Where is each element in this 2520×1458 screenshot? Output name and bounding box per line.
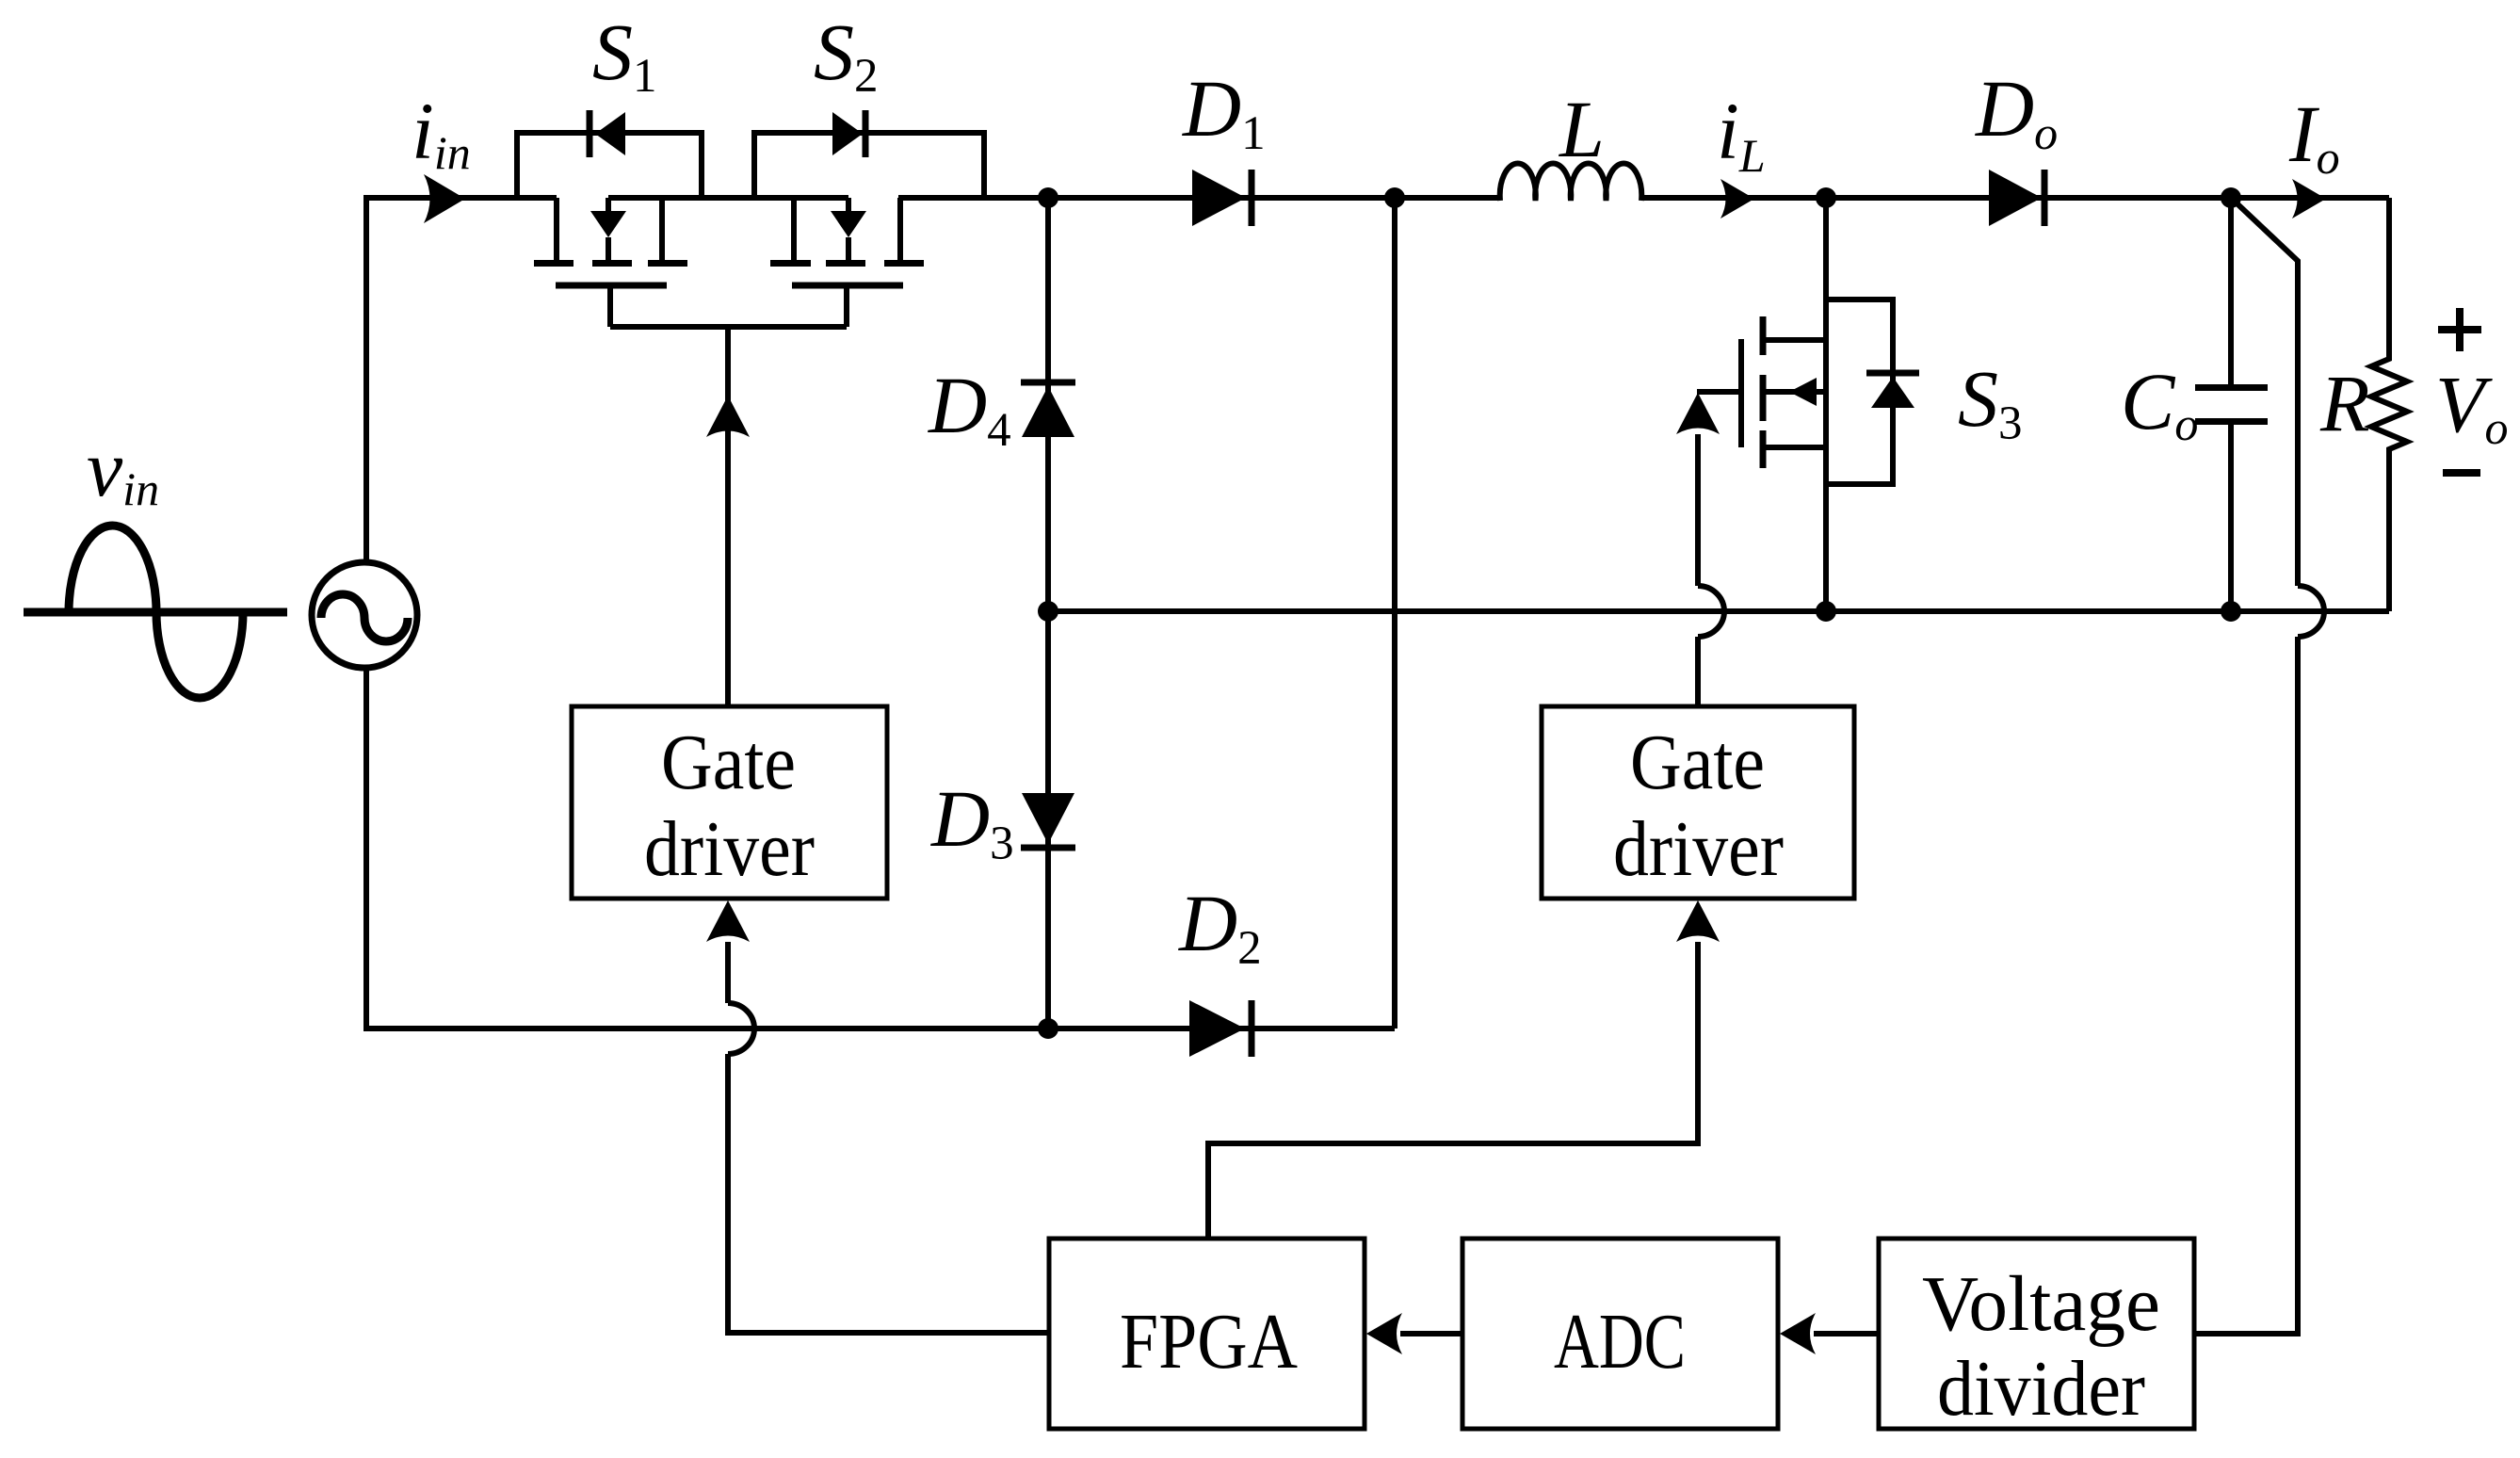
arrow iL [1720,179,1754,219]
voltage divider box [1879,1239,2194,1429]
svg-text:R: R [2319,358,2370,448]
ADC box [1462,1239,1778,1429]
diode D2 [1189,1000,1252,1057]
wire: left rail top (source to top rail corner) [366,198,557,562]
svg-text:ADC: ADC [1554,1298,1686,1385]
svg-text:divider: divider [1937,1345,2145,1433]
wire: top rail between S1 and S2 [608,195,848,201]
mosfet S2 [754,110,984,327]
mosfet S3 [1697,198,1919,611]
wire: D4/D3 branch vertical [1045,198,1051,1029]
svg-text:FPGA: FPGA [1120,1298,1298,1385]
junction node at output (Co top) [2221,187,2241,208]
junction node bottom rail at D3 [1038,1018,1058,1039]
arrow into gate driver 2 + wire from FPGA [1208,900,1720,1239]
junction node at top of D2 riser [1384,187,1405,208]
svg-text:L: L [1558,84,1605,174]
diode D4 [1021,382,1075,437]
ac source inner sine [321,594,408,641]
gate driver box 2 [1542,706,1854,899]
svg-text:Voltage: Voltage [1922,1260,2160,1348]
FPGA box [1049,1239,1365,1429]
diode Do [1989,170,2044,226]
diode D1 [1192,170,1252,226]
wire: gate driver 2 to S3 gate [1676,393,1724,706]
label plus [2438,308,2481,351]
svg-text:Gate: Gate [661,719,796,806]
vin sine waveform icon [24,526,287,698]
wire: D2 riser [1392,198,1397,1029]
wire: top rail from S2 to inductor [898,195,1500,201]
svg-text:Gate: Gate [1630,719,1765,806]
load resistor R [2371,198,2407,611]
diode D3 [1021,793,1075,848]
junction node at S3 drain [1816,187,1836,208]
svg-text:driver: driver [644,805,815,893]
arrow ADC to FPGA [1366,1313,1462,1354]
arrow into gate driver 1 + wire from FPGA [706,900,1049,1333]
wire: top rail from inductor to right corner [1641,195,2389,201]
arrow i_in [424,174,465,223]
junction node mid rail at Co bottom [2221,601,2241,622]
wire: mid rail [1048,608,2389,614]
mosfet S1 [517,110,702,327]
arrow voltage divider to ADC [1780,1313,1879,1354]
gate driver box 1 [572,706,887,899]
label minus [2443,469,2480,477]
arrow Io [2292,179,2326,219]
svg-text:driver: driver [1613,805,1784,893]
wire: ac source bottom lead + bottom rail [366,668,1395,1029]
junction node at top of D4 branch [1038,187,1058,208]
junction node mid rail at S3 source [1816,601,1836,622]
sense wire from output node to voltage divider [2194,198,2324,1334]
capacitor Co [2195,198,2268,611]
inductor L [1500,164,1642,201]
wire: S1/S2 gates to gate driver 1 [610,327,847,706]
ac source circle [312,562,417,668]
junction node mid rail at D4/D3 [1038,601,1058,622]
